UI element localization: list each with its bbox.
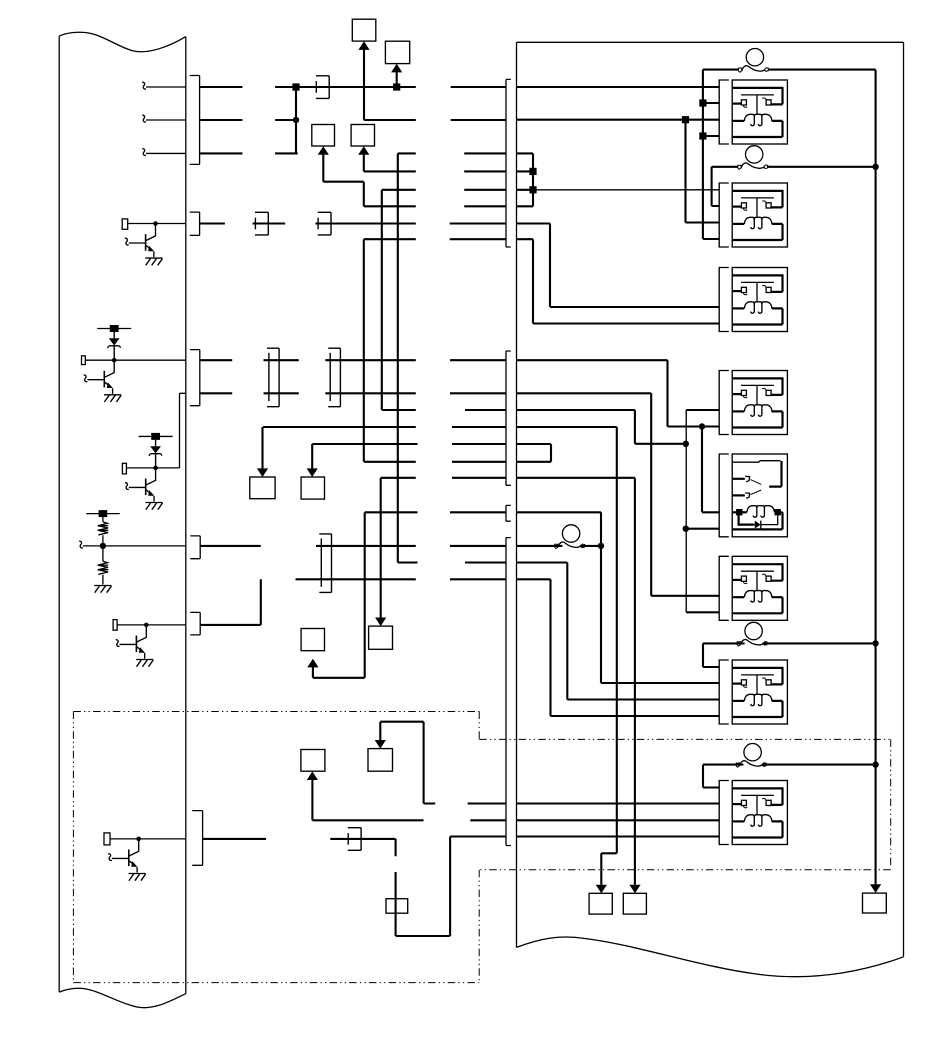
junction square bus row4 [529, 168, 536, 175]
wire B5 riser to row 444 [311, 444, 313, 469]
wire B6 hook to row 512 riser [313, 512, 365, 678]
ECU block wavy top edge [59, 32, 186, 51]
wire link circuit3 to bracket row393 [126, 393, 185, 468]
hook row3 [142, 149, 146, 156]
phantom border bottom edge [73, 982, 479, 984]
junction block wavy bottom edge [517, 937, 904, 977]
wire box B8 riser and row 721.7 [380, 722, 423, 741]
relay K2 [719, 183, 788, 247]
arrow into B6 [307, 659, 318, 668]
loop rows 444/461.8 in junction block [550, 444, 552, 462]
relay K6 [719, 556, 788, 620]
ground box G1 (bottom middle) [589, 893, 612, 914]
wire row8 segments [364, 238, 533, 240]
pin box circuit6 [104, 833, 110, 845]
wire row 836.5 segments (relay K8 pin4) [450, 835, 719, 837]
wire R1 to junction [102, 535, 104, 546]
wire M2 stub down to row4 [363, 154, 365, 172]
thin wire node bus to relay K2 pin1 [517, 189, 720, 191]
inline connector pair circuits 4/5 [319, 534, 331, 593]
junction dot CB6 output [598, 543, 604, 549]
wire circuit6 row internal [110, 838, 186, 840]
junction block right edge [903, 42, 905, 957]
connector bracket J3 (single pin) [506, 505, 511, 521]
arrow into B5 [307, 468, 318, 477]
wire circuit2 row segments (row 360) [200, 359, 668, 361]
wire K1 pin3 branch down to K2 pin3 [686, 120, 720, 223]
stub to K2 pin4 [703, 238, 719, 240]
ECU block right edge [185, 37, 187, 994]
wire row 562.5 segments [398, 153, 568, 562]
arrow into B7 [307, 771, 318, 780]
junction square bus row5 [529, 186, 536, 193]
wire circuit5 row internal [117, 624, 186, 626]
circuit breaker CB6 (mid-left of junction block) [555, 525, 585, 549]
wire row 461.8 segments [364, 461, 551, 463]
transistor Q2 [84, 358, 122, 402]
wire row 579.3 segments [296, 578, 551, 580]
wire CB2 left down to K2 pin2 [712, 167, 738, 206]
wire box B7 drop and row 820 (relay K8 pin3) [312, 780, 719, 821]
hook row2 [142, 115, 146, 122]
connector bracket on ECU edge, circuits 2/3 [190, 350, 200, 406]
transistor Q4 [116, 623, 154, 667]
box M1 [312, 125, 335, 147]
arrow into B8 [375, 740, 386, 749]
wire row7 segments (circuit 1 output) [200, 222, 550, 224]
ECU block left edge [58, 36, 60, 992]
wire row1 segments [200, 86, 720, 88]
pin box circuit5 [113, 620, 117, 631]
connector bracket on ECU edge, circuit 4 [190, 536, 200, 559]
resistor R2 (lower) [102, 546, 104, 561]
wire stub to relay K6 pin4 [686, 611, 719, 613]
junction dot K5 lower pin [683, 526, 689, 532]
arrow into T1 [358, 41, 369, 50]
junction square row1/bus [292, 83, 299, 90]
inline connector pair circuits 2/3 a [267, 348, 279, 407]
wire row 512.3 segments [365, 511, 601, 513]
wire circuit4 row segments (row 546) [200, 545, 562, 547]
fuse F1 in circuit6 run [386, 899, 408, 914]
wire CB1 left to down-bus [703, 69, 739, 71]
wire row5 segments [382, 189, 533, 191]
wire row 477.8 long drop to ground box G2 [634, 478, 636, 885]
box T2 [385, 41, 409, 63]
phantom border right edge [890, 739, 892, 867]
hook circuit4 [79, 541, 83, 548]
wire relay K4 pin3 riser down to K5 / K6 pin4 [685, 410, 687, 612]
junction dot row2/bus [293, 117, 299, 123]
ground box G2 [623, 893, 646, 914]
wire circuit5 row and riser [200, 579, 261, 625]
connector bracket on ECU edge, row 7 (transistor circuit 1) [190, 212, 200, 235]
circuit breaker CB1 above relay K1 [739, 49, 769, 73]
circuit breaker CB2 above relay K2 [738, 146, 768, 170]
junction dot circuit4 [100, 543, 106, 549]
relay K4 [719, 371, 788, 435]
junction dot K4 feed branch [699, 423, 705, 429]
box T1 (top destination) [352, 19, 376, 41]
arrow into M1 [318, 146, 329, 155]
stub to K1 pin4 [703, 135, 719, 137]
relay K8 [719, 781, 788, 845]
wire row 410 segments [382, 190, 635, 410]
connector bracket J2 on junction block edge [506, 351, 511, 485]
wire row 512.3 drop to relay K7 pin2 [601, 512, 719, 683]
ECU block wavy bottom edge [59, 988, 186, 1007]
connector bracket J1 on junction block edge (rows 1-8) [506, 79, 511, 247]
wire relay K4 pin3 stub [686, 409, 719, 411]
inline connector row7 a [255, 212, 268, 235]
circuit breaker CB7 above relay K7 [737, 622, 767, 646]
wire circuit2 row internal [85, 359, 186, 361]
wire T2 stub down to row1 [396, 72, 398, 88]
wire CB7 left down to K7 pin1 [703, 643, 745, 667]
rail tap square circuit4 [86, 513, 120, 515]
inline connector pair circuits 2/3 b [328, 348, 340, 407]
wire row 393 drop to relay K6 pin3 [651, 393, 719, 596]
zener diode D3 with rail tap (circuit3) [139, 433, 173, 456]
wire row 427 long drop to ground box G1 [601, 427, 617, 885]
relay K5 (with diode) [719, 454, 787, 537]
wire row8 drop to relay K3 pin4 [533, 239, 719, 323]
pin box circuit3 [122, 463, 126, 474]
wire row7 drop to relay K3 pin3 [550, 224, 719, 308]
transistor Q3 [125, 466, 163, 510]
relay K1 (top) [719, 80, 788, 144]
node bus rows1-3 vertical [295, 87, 297, 153]
junction dot feed bus / CB8 [872, 761, 878, 767]
wire row3 segments [200, 152, 533, 154]
wire stub to relay K5 lower pin [686, 528, 719, 530]
box B8 [368, 749, 393, 772]
transistor Q1 [125, 221, 163, 265]
phantom border left edge [72, 712, 74, 983]
connector bracket on ECU edge, circuit 5 [190, 612, 200, 635]
wire drop through fuse to bottom run [396, 837, 451, 937]
main feed bus vertical (right side) [875, 70, 877, 885]
inline connector circuit 6 [348, 828, 361, 851]
junction dot feed bus / CB7 [872, 640, 878, 646]
inline connector row7 b [318, 212, 331, 235]
wire circuit1 row internal [128, 223, 186, 225]
circuit breaker CB8 above relay K8 [736, 744, 766, 768]
arrow into B3 [375, 618, 386, 627]
junction dot feed bus / CB2 [872, 164, 878, 170]
phantom border upper right extension [479, 738, 891, 740]
arrow into ground box G3 [870, 884, 881, 893]
phantom border top edge [73, 711, 479, 713]
box B5 [301, 477, 324, 499]
arrow into B4 [257, 468, 268, 477]
wire M1 staircase to row6 [323, 154, 364, 206]
wire row4 segments [364, 170, 533, 172]
wire row 360 staircase to relay K4 pin4 [668, 360, 720, 426]
junction square K1 pin3 tap [682, 116, 689, 123]
junction square row1/T-box2 [393, 83, 400, 90]
ground circuit4 [94, 586, 111, 593]
phantom dash-dot boundary (lower assembly) [73, 712, 890, 983]
junction square K1 pin2 tap [699, 99, 706, 106]
relay K7 [719, 660, 788, 724]
wire zener to junction [113, 346, 115, 360]
hook row1 [142, 82, 146, 89]
relay K3 [719, 268, 788, 332]
wire ECU row1 internal [146, 86, 186, 88]
wire vertical CB1 to K1 pins 2/4 and K2 pin 4 [702, 70, 704, 239]
node bus rows3-6 vertical (in junction block) [532, 153, 534, 206]
wire row 444 segments (to box B5) [312, 443, 551, 445]
phantom border mid right edge [478, 870, 480, 983]
arrow into G1 [596, 885, 607, 894]
box B7 [301, 750, 325, 772]
transistor Q5 [108, 837, 146, 881]
wire CB2 right to feed bus [767, 166, 875, 168]
wire circuit3 row segments (row 393) [200, 392, 651, 394]
arrow into M2 [358, 146, 369, 155]
wire CB7 right to feed bus [763, 642, 876, 644]
stub to K1 pin2 [703, 102, 719, 104]
phantom border jog down [478, 712, 480, 740]
wire drop to row 803.5 (relay K8 pin2) [424, 722, 720, 804]
phantom border lower right extension [479, 869, 891, 871]
junction block left edge [516, 42, 518, 947]
wire B3 riser to row 477.8 [380, 478, 382, 618]
junction block top edge [517, 41, 904, 43]
wire ECU row2 internal [146, 119, 186, 121]
ground box G3 (bottom right) [863, 893, 887, 913]
pin box circuit2 [82, 356, 86, 365]
wire row6 segments [364, 205, 533, 207]
wire row 410 drop and link to K4 pin3 riser [635, 410, 686, 444]
connector bracket on ECU edge, rows 1-3 [190, 76, 200, 165]
pin resistor box circuit1 [122, 219, 128, 229]
wire circuit6 row segments (row 839) [203, 838, 396, 840]
arrow into T2 [391, 64, 402, 73]
wire row 427 segments (from box B4) [263, 426, 617, 428]
wire row8 corner riser [363, 239, 365, 462]
resistor R1 (upper) [102, 517, 104, 522]
junction square K1 pin4 tap [699, 132, 706, 139]
connector bracket J4 on junction block edge [506, 538, 511, 846]
wire row2 segments [200, 119, 720, 121]
wire row 477.8 segments [381, 477, 635, 479]
wire zener3 to junction [155, 454, 157, 468]
inline connector row1 [316, 76, 329, 99]
wire CB8 left down to K8 pin1 [703, 765, 743, 788]
wire T1 stub down to row2 [363, 49, 365, 120]
box B4 [250, 477, 275, 499]
wire B4 riser to row 427 [261, 427, 263, 469]
junction dot row410 link [683, 441, 689, 447]
wire row 579.3 drop to relay K7 pin4 [551, 579, 720, 716]
box B3 (row 477 destination) [369, 626, 393, 649]
wire CB8 right to feed bus [762, 764, 876, 766]
connector bracket on ECU edge, circuit 6 [192, 811, 202, 866]
box B6 (lower mid) [301, 629, 324, 651]
wire row 562.5 drop to relay K7 pin3 [567, 563, 719, 700]
zener diode D2 with rail tap (circuit2) [97, 325, 131, 348]
box M2 [351, 125, 374, 147]
wire CB1 right to main feed bus [768, 69, 875, 71]
arrow into G2 [629, 885, 640, 894]
wire CB6 right to row512 drop [580, 545, 601, 547]
wire branch down to relay K5 coil [702, 427, 719, 513]
wire circuit4 row internal [83, 545, 186, 547]
wire ECU row3 internal [146, 152, 186, 154]
